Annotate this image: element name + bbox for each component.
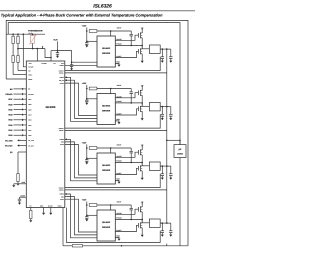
VIN arrow (phase 3)	[141, 145, 143, 147]
svg-text:µP: µP	[179, 148, 182, 151]
capacitor C_boot1	[130, 31, 132, 34]
wire PHASE (phase 3)	[115, 161, 142, 163]
svg-text:VID3: VID3	[28, 120, 31, 122]
svg-text:DRIVER: DRIVER	[102, 110, 111, 113]
wire PHASE (phase 2)	[115, 102, 142, 104]
inductor L2	[149, 103, 160, 111]
svg-text:VID3: VID3	[8, 119, 12, 122]
ground (Q3B source)	[141, 178, 144, 180]
+12V top rail (outer)	[6, 20, 188, 245]
svg-text:EN4: EN4	[61, 196, 64, 198]
capacitor C_vcc1	[85, 43, 88, 45]
svg-text:BOOT: BOOT	[117, 201, 122, 204]
svg-text:TCOMP: TCOMP	[41, 62, 46, 65]
svg-text:VID6: VID6	[28, 104, 31, 106]
svg-text:RGND: RGND	[48, 204, 53, 207]
ground (C_out4)	[161, 235, 164, 237]
svg-text:ISEN3-: ISEN3-	[59, 190, 64, 192]
VIN arrow (phase 4)	[141, 202, 143, 204]
ground (C_bulk1)	[169, 61, 172, 63]
wire UGATE (phase 2)	[115, 93, 138, 98]
pin GND of U1	[14, 183, 26, 185]
capacitor C_d1	[71, 62, 73, 65]
resistor R_boot2	[89, 87, 97, 90]
wire ISEN2-	[65, 129, 167, 131]
ground (Q2B source)	[141, 118, 144, 120]
svg-text:+12V: +12V	[82, 199, 87, 202]
wire +12V feed (phase 2)	[86, 85, 88, 100]
resistor R_tm2a (vertical, x=18)	[17, 34, 19, 36]
bottom sense return rail	[63, 245, 72, 247]
capacitor C_boot3	[130, 148, 132, 151]
capacitor C_vcc	[56, 53, 59, 55]
VIN arrow (phase 2)	[141, 85, 143, 87]
svg-text:EN: EN	[10, 88, 13, 91]
wire: node to VCC pin	[51, 50, 58, 52]
wire: R_tm1 to TM pin	[13, 74, 26, 76]
ground (C_comp)	[18, 203, 21, 205]
resistor R_tm1a (vertical, x=13)	[12, 34, 14, 36]
resistor R_boot4	[89, 204, 97, 207]
inductor L1	[149, 45, 160, 53]
transistor Q3B (lower MOSFET)	[137, 166, 139, 171]
capacitor C_out4	[161, 223, 163, 231]
wire +12V feed (phase 3)	[86, 144, 88, 159]
inductor L4	[149, 219, 160, 227]
node: thermistor top rail	[6, 33, 45, 35]
wire lower source to ground (phase 4)	[141, 228, 143, 235]
ground (C_vcc2)	[85, 103, 88, 105]
svg-text:+12V: +12V	[53, 39, 58, 42]
svg-text:ISEN3+: ISEN3+	[59, 187, 64, 189]
svg-text:ISEN1-: ISEN1-	[59, 73, 64, 75]
wire: R_tm2 to TCOMP pin	[18, 70, 26, 72]
ground (driver 4)	[118, 239, 121, 241]
svg-text:ISEN2-: ISEN2-	[59, 130, 64, 132]
capacitor C_bulk2	[167, 106, 171, 108]
wire +12V feed (phase 4)	[86, 201, 88, 216]
ground (C_bulk3)	[169, 178, 172, 180]
svg-text:ISEN1+: ISEN1+	[59, 70, 64, 72]
wire upper source (phase 3)	[141, 155, 143, 163]
svg-text:+12V: +12V	[82, 25, 87, 28]
wire UGATE (phase 4)	[115, 209, 138, 214]
resistor R_tm2b (vertical, x=18)	[17, 44, 19, 56]
wire: +12V branch to driver 1 VCC	[58, 51, 72, 63]
wire driver GND (phase 2)	[115, 121, 119, 122]
transistor Q1A (upper MOSFET)	[137, 33, 139, 38]
ground (R_ss)	[17, 184, 20, 186]
wire VCC2 staircase	[65, 83, 97, 115]
svg-text:ISL6326: ISL6326	[93, 4, 112, 10]
svg-text:PWM1: PWM1	[59, 65, 64, 67]
wire driver VCC (phase 2)	[87, 98, 97, 100]
wire PWM2 staircase	[65, 77, 97, 121]
svg-text:ISEN2+: ISEN2+	[59, 128, 64, 130]
capacitor C_bulk4	[167, 222, 171, 224]
svg-text:VID4: VID4	[28, 114, 31, 116]
ground (Q1B source)	[141, 61, 144, 63]
svg-text:VID2: VID2	[8, 124, 12, 127]
wire lower source to ground (phase 2)	[141, 111, 143, 118]
svg-text:ISL6612: ISL6612	[102, 105, 111, 108]
capacitor C_bulk1	[167, 48, 171, 50]
wire PWM3 staircase	[65, 139, 97, 181]
svg-text:Typical Application - 4-Phase: Typical Application - 4-Phase Buck Conve…	[1, 13, 163, 18]
resistor R_boot3	[89, 147, 97, 150]
svg-text:IREF: IREF	[40, 204, 44, 207]
ground (C_out1)	[161, 61, 164, 63]
capacitor C_comp	[18, 199, 21, 201]
svg-text:VDIFF: VDIFF	[28, 74, 32, 76]
svg-text:BOOT: BOOT	[117, 27, 122, 30]
wire: thermistor top lead	[32, 34, 34, 35]
svg-text:VCC3: VCC3	[60, 144, 64, 146]
wire PWM4 staircase	[65, 194, 97, 238]
capacitor C_boot2	[130, 89, 132, 92]
driver U4 ISL6612 (phase 3)	[97, 153, 115, 184]
ground (C_vcc)	[56, 56, 59, 58]
wire VCC4 staircase	[65, 199, 97, 232]
svg-text:PWM4: PWM4	[59, 194, 64, 196]
svg-text:VR_FAN: VR_FAN	[5, 139, 13, 142]
ground (driver 1)	[118, 65, 121, 67]
svg-text:PGOOD: PGOOD	[5, 93, 13, 96]
wire LGATE (phase 3)	[115, 168, 138, 174]
svg-text:TCOMP: TCOMP	[28, 67, 33, 69]
wire driver GND (phase 3)	[115, 180, 119, 181]
wire ISEN4+ via bottom	[67, 208, 161, 243]
svg-text:ISL6326: ISL6326	[46, 106, 56, 109]
capacitor C_vcc2	[85, 100, 88, 102]
wire upper source (phase 1)	[141, 38, 143, 46]
svg-text:LOAD: LOAD	[177, 153, 184, 156]
svg-text:PWM3: PWM3	[59, 139, 64, 141]
inductor L3	[149, 162, 160, 170]
wire ISEN4- via bottom	[166, 244, 168, 246]
wire ISEN2+	[65, 114, 160, 128]
svg-text:VCCP: VCCP	[60, 83, 64, 85]
ground (U1 GND pin)	[12, 185, 15, 187]
wire EN2 staircase	[65, 80, 97, 118]
svg-text:SS: SS	[10, 151, 13, 154]
wire +12V feed (phase 1)	[86, 27, 88, 42]
wire PWM1	[65, 64, 97, 66]
wire LGATE (phase 1)	[115, 51, 138, 57]
wire inductor output (phase 4)	[160, 222, 167, 224]
ground (IREF)	[42, 213, 45, 215]
capacitor C_out3	[161, 166, 163, 174]
junction on bottom rail	[121, 245, 123, 247]
wire load top feed	[179, 140, 181, 144]
resistor R_ss	[17, 174, 19, 182]
wire LGATE (phase 4)	[115, 225, 138, 231]
header rule	[0, 9, 195, 12]
svg-text:VID2: VID2	[28, 125, 31, 127]
wire: summing node right branch to pin	[45, 49, 51, 58]
svg-text:TM: TM	[28, 70, 31, 72]
svg-text:VID7: VID7	[28, 99, 31, 101]
wire UGATE (phase 1)	[115, 35, 138, 40]
wire driver VCC (phase 3)	[87, 157, 97, 159]
ground (C_vcc1)	[85, 45, 88, 47]
ground (C_d1)	[70, 68, 73, 70]
svg-text:EN_PH: EN_PH	[59, 80, 64, 82]
svg-text:VID6: VID6	[8, 103, 12, 106]
svg-text:ISL6612: ISL6612	[102, 47, 111, 50]
right bus lower segment (load return)	[179, 158, 181, 246]
ground (C_out3)	[161, 178, 164, 180]
svg-text:ISL6612: ISL6612	[102, 221, 111, 224]
wire lower source to ground (phase 1)	[141, 54, 143, 61]
svg-text:VSEN: VSEN	[58, 204, 62, 207]
wire phase node to inductor (phase 3)	[141, 162, 143, 165]
wire driver VCC (phase 1)	[87, 40, 97, 42]
ground (C_bulk2)	[169, 118, 172, 120]
load block (microprocessor)	[174, 145, 186, 158]
thermistor RT1 (red)	[31, 35, 35, 43]
svg-text:EN3: EN3	[61, 142, 64, 144]
wire: left rail to TM pin	[6, 78, 26, 80]
svg-text:VCC4: VCC4	[60, 199, 64, 201]
svg-text:VSEN: VSEN	[28, 79, 32, 81]
wire BOOT (phase 4)	[110, 205, 112, 210]
wire UGATE (phase 3)	[115, 152, 138, 157]
resistor R_fs (FS pin)	[30, 208, 32, 211]
node: thermistor bottom summing wire	[18, 48, 45, 50]
svg-text:TM: TM	[53, 62, 56, 65]
wire VCC3 staircase	[65, 145, 97, 176]
resistor R_tm1b (vertical, x=13)	[12, 44, 14, 56]
driver U5 ISL6612 (phase 4)	[97, 210, 115, 241]
ground (Q4B source)	[141, 235, 144, 237]
ground (R_fs)	[29, 220, 32, 222]
wire: controller sense to bottom rail	[62, 208, 64, 246]
resistor on bottom return	[72, 245, 82, 247]
wire ISEN3-	[65, 189, 167, 191]
wire BOOT (phase 1)	[110, 31, 112, 36]
capacitor C_boot4	[130, 205, 132, 208]
wire IREF pin to ground	[43, 208, 45, 213]
wire inductor output (phase 2)	[160, 106, 167, 108]
transistor Q1B (lower MOSFET)	[137, 49, 139, 54]
capacitor C_bulk3	[167, 165, 171, 167]
svg-text:VID0: VID0	[28, 135, 31, 137]
svg-text:VID4: VID4	[8, 114, 13, 117]
svg-text:+12V: +12V	[82, 142, 87, 145]
svg-text:VR_HOT: VR_HOT	[28, 145, 34, 147]
+5V top rail (inner)	[8, 23, 180, 145]
svg-text:THERMISTOR: THERMISTOR	[28, 29, 43, 32]
wire upper source (phase 4)	[141, 212, 143, 220]
transistor Q2B (lower MOSFET)	[137, 107, 139, 112]
wire inductor output (phase 3)	[160, 165, 167, 167]
wire: branch x=23.3 to pin	[23, 34, 26, 67]
svg-text:DRIVER: DRIVER	[102, 52, 111, 55]
svg-text:NTC: NTC	[29, 62, 33, 65]
controller U1 ISL6326	[26, 61, 65, 208]
wire EN3 staircase	[65, 142, 97, 178]
svg-text:VID5: VID5	[8, 108, 12, 111]
svg-text:VID7: VID7	[8, 98, 12, 101]
wire: thermistor bottom lead	[32, 44, 34, 49]
svg-text:FS: FS	[30, 204, 32, 207]
wire phase node to inductor (phase 2)	[141, 103, 143, 106]
wire ISEN1-	[65, 72, 167, 74]
ground (C_vcc4)	[85, 219, 88, 221]
wire: summing node to NTC pin	[36, 49, 38, 61]
wire PHASE (phase 1)	[115, 44, 142, 46]
ground (C_vcc3)	[85, 162, 88, 164]
ground (RGND)	[49, 213, 52, 215]
transistor Q2A (upper MOSFET)	[137, 91, 139, 96]
transistor Q4A (upper MOSFET)	[137, 207, 139, 212]
transistor Q3A (upper MOSFET)	[137, 150, 139, 155]
wire phase node to inductor (phase 1)	[141, 45, 143, 48]
driver U3 ISL6612 (phase 2)	[97, 94, 115, 125]
wire VCORE to load	[167, 139, 180, 141]
svg-text:PWM2: PWM2	[59, 77, 64, 79]
wire RGND pin to ground	[50, 208, 52, 213]
svg-text:GND: GND	[21, 181, 25, 184]
wire inductor output (phase 1)	[160, 48, 167, 50]
svg-text:+12V: +12V	[82, 82, 87, 85]
capacitor C_vcc3	[85, 160, 88, 162]
svg-text:VID1: VID1	[28, 130, 31, 132]
transistor Q4B (lower MOSFET)	[137, 223, 139, 228]
svg-text:ISL6612: ISL6612	[102, 164, 111, 167]
+12V tap arrow on summing wire	[42, 46, 44, 48]
svg-text:VID5: VID5	[28, 109, 31, 111]
ground (C_bulk4)	[169, 235, 172, 237]
driver U2 ISL6612 (phase 1)	[97, 36, 115, 67]
wire EN4 staircase	[65, 197, 97, 235]
capacitor C_out1	[161, 49, 163, 57]
ground (C_out2)	[161, 118, 164, 120]
capacitor C_out2	[161, 107, 163, 115]
svg-text:VID0: VID0	[8, 134, 12, 137]
wire: +12V down to node	[57, 41, 59, 52]
wire ISEN1+	[65, 57, 160, 71]
ground (driver 2)	[118, 122, 121, 124]
svg-text:VR_HOT: VR_HOT	[5, 144, 14, 147]
wire driver GND (phase 4)	[115, 237, 119, 238]
wire ISEN3+	[65, 174, 160, 188]
svg-text:BOOT: BOOT	[117, 84, 122, 87]
wire LGATE (phase 2)	[115, 109, 138, 115]
svg-text:EN: EN	[28, 89, 30, 91]
ground (driver 3)	[118, 182, 121, 184]
wire PHASE (phase 4)	[115, 218, 142, 220]
svg-text:PGOOD: PGOOD	[28, 94, 33, 96]
svg-text:VR_FAN: VR_FAN	[28, 140, 34, 142]
wire BOOT (phase 2)	[110, 89, 112, 94]
svg-text:VID1: VID1	[8, 129, 12, 132]
VCORE rail	[166, 53, 168, 223]
resistor R_boot1	[89, 30, 97, 33]
VIN arrow (phase 1)	[141, 28, 143, 30]
wire BOOT (phase 3)	[110, 148, 112, 153]
svg-text:DRIVER: DRIVER	[102, 169, 111, 172]
wire driver GND (phase 1)	[115, 63, 119, 64]
capacitor C_vcc4	[85, 217, 88, 219]
svg-text:DRIVER: DRIVER	[102, 226, 111, 229]
wire phase node to inductor (phase 4)	[141, 219, 143, 222]
svg-text:BOOT: BOOT	[117, 144, 122, 147]
wire upper source (phase 2)	[141, 95, 143, 103]
wire driver VCC (phase 4)	[87, 214, 97, 216]
wire lower source to ground (phase 3)	[141, 171, 143, 178]
